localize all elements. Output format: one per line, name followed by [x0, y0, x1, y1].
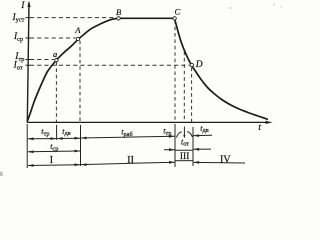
dashed level I_ust — [30, 17, 116, 19]
point D marker — [190, 63, 193, 66]
dimension II row3 — [81, 162, 175, 164]
section boundary at A — [80, 125, 82, 166]
dashed vertical mid release — [183, 52, 185, 123]
svg-text:I: I — [50, 155, 53, 166]
dashed level I_ot — [30, 64, 190, 66]
point C marker — [173, 17, 176, 20]
svg-text:tтр: tтр — [163, 127, 171, 137]
dimension t_rab row1 — [81, 136, 175, 138]
flat top segment B to C — [119, 17, 173, 19]
point A marker — [76, 37, 79, 40]
lead line t_dv release — [194, 134, 212, 136]
svg-text:tот: tот — [181, 137, 189, 147]
svg-text:IV: IV — [220, 154, 231, 165]
svg-text:I: I — [20, 1, 25, 11]
dashed level I_sr — [30, 37, 76, 39]
faint scan speckles — [230, 7, 232, 9]
svg-text:Iуст: Iуст — [12, 13, 25, 24]
section boundary at C — [174, 124, 176, 167]
hook arc right — [187, 132, 192, 137]
y-axis arrowhead — [27, 1, 30, 8]
tick I_ot — [26, 64, 31, 66]
dashed level I_tr — [30, 59, 54, 61]
dimension t_dv row1 — [57, 137, 80, 139]
current decay curve — [175, 18, 268, 119]
dashed vertical at C — [174, 20, 176, 122]
dashed vertical at A — [79, 41, 81, 122]
svg-text:B: B — [116, 7, 121, 17]
dimension IV row3 — [194, 161, 245, 164]
tick I_sr — [26, 37, 31, 39]
section boundary at origin — [26, 124, 28, 168]
svg-text:C: C — [175, 6, 181, 16]
svg-text:tтр: tтр — [41, 127, 49, 137]
hook arc left — [177, 132, 182, 138]
point a marker — [55, 59, 58, 62]
dashed vertical at a — [55, 62, 57, 122]
section boundary at D — [192, 127, 194, 166]
svg-text:A: A — [74, 25, 81, 35]
dashed vertical at D — [191, 68, 193, 123]
dimension t_ot row2 — [164, 149, 175, 151]
dimension I row3 — [28, 164, 80, 167]
svg-text:tдв: tдв — [200, 124, 208, 134]
current rise curve — [27, 18, 118, 121]
svg-text:t: t — [258, 123, 261, 133]
svg-text:a: a — [53, 49, 57, 59]
svg-text:tдв: tдв — [62, 127, 70, 137]
row3 line between C and D — [175, 160, 193, 162]
scan smudge bottom-left — [0, 171, 3, 176]
svg-text:tср: tср — [50, 142, 58, 152]
row2 segment between C and D boundaries — [175, 149, 193, 151]
dimension t_sr row2 — [28, 150, 80, 153]
x-axis — [27, 121, 269, 123]
section boundary at a — [56, 125, 58, 140]
x-axis arrowhead — [266, 121, 273, 124]
tick I_ust — [26, 17, 31, 19]
svg-text:Iср: Iср — [13, 32, 23, 43]
dimension t_tr row1 — [28, 138, 56, 140]
small down arrow at bottom of mid boundary — [183, 135, 185, 138]
tick I_tr — [26, 59, 31, 61]
point B marker — [117, 17, 120, 20]
svg-text:tраб: tраб — [121, 128, 132, 138]
y-axis — [27, 3, 29, 122]
short boundary mid release — [183, 127, 185, 138]
svg-text:II: II — [127, 155, 134, 166]
svg-text:D: D — [195, 60, 203, 70]
